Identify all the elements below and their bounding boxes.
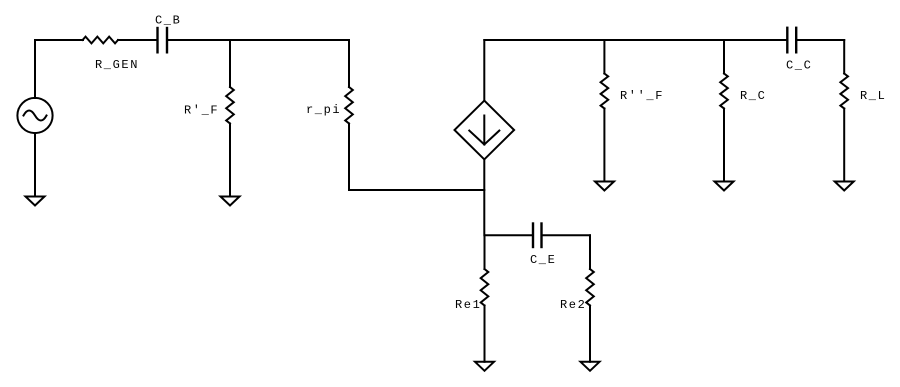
wire: C_B to r_pi corner (through R'_F junction) [167,39,349,41]
wire: AC source bottom lead [34,133,36,196]
wire: r_pi top lead [348,40,350,87]
wire: C_E to Re2 corner [542,234,591,236]
resistor R'_F [226,87,234,123]
svg-text:R_GEN: R_GEN [95,58,139,72]
svg-text:C_B: C_B [155,14,181,28]
svg-text:r_pi: r_pi [306,103,341,117]
wire: R''_F bottom lead [603,109,605,182]
ground (below R_C) [715,182,734,191]
resistor R_L [840,74,848,109]
wire: C_C to R_L corner [796,39,844,41]
ground (below R''_F) [595,182,614,191]
wire: R_C bottom lead [723,109,725,182]
wire: R'_F bottom lead [229,124,231,197]
wire: controlled source bottom lead down to emitter node [483,159,485,235]
wire: top right rail, G1 to C_C [484,39,787,41]
resistor R_C [720,74,728,109]
svg-text:R'_F: R'_F [184,104,219,118]
svg-text:R''_F: R''_F [620,89,664,103]
ground (below Re1) [475,362,494,371]
wire: R_C top lead [723,40,725,74]
wire: top rail, source to R_GEN [35,39,83,41]
wire: R_L bottom lead [843,109,845,182]
svg-text:R_L: R_L [860,89,886,103]
wire: r_pi bottom lead [348,124,350,191]
wire: R_GEN to C_B [118,39,158,41]
wire: Re1 top lead [484,235,486,269]
svg-text:R_C: R_C [740,89,766,103]
svg-text:C_C: C_C [786,59,812,73]
wire: Re2 top lead [589,235,591,269]
wire: R'_F top lead [229,40,231,87]
wire: middle horizontal, r_pi to controlled source [349,189,484,191]
ground (below Re2) [581,362,600,371]
svg-text:C_E: C_E [530,253,556,267]
wire: AC source top lead [34,40,36,98]
wire: R''_F top lead [603,40,605,74]
resistor R_GEN [83,37,118,44]
svg-text:Re2: Re2 [560,298,586,312]
ground (below R_L) [835,182,854,191]
wire: emitter node to C_E [485,234,534,236]
wire: controlled source top lead [483,40,485,101]
resistor Re1 [481,269,489,305]
wire: Re1 bottom lead [484,306,486,362]
resistor Re2 [586,269,594,305]
svg-text:Re1: Re1 [455,298,481,312]
capacitor C_B [158,28,168,52]
wire: R_L top lead [843,40,845,74]
controlled current source G1 (diamond with down arrow) [455,101,515,160]
resistor R''_F [601,74,609,109]
wire: Re2 bottom lead [589,306,591,362]
capacitor C_E [533,224,542,248]
resistor r_pi [345,87,353,123]
ground (below R'_F) [221,197,240,206]
capacitor C_C [787,28,796,53]
AC voltage source V1 (circle with sine) [17,98,52,133]
ground (below AC source) [26,197,45,206]
